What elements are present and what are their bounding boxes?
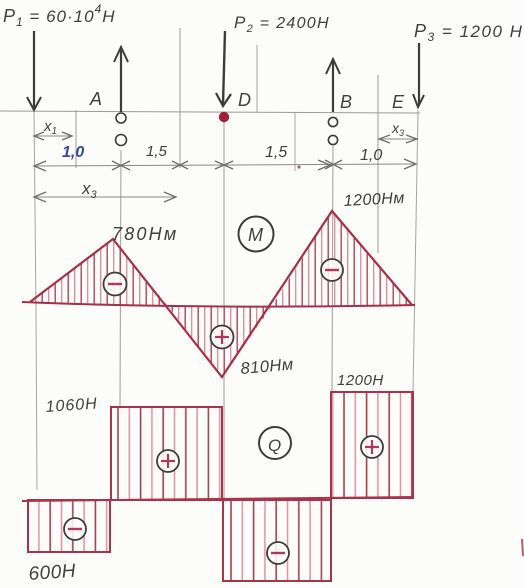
svg-text:D: D: [238, 90, 251, 110]
Q sign minus left: [64, 518, 86, 540]
Q sign plus right: [361, 436, 383, 458]
Q diagram negative rect 600N: [28, 500, 110, 552]
support A rollers: [116, 113, 127, 146]
construction line x=295: [294, 113, 296, 171]
svg-text:1060Н: 1060Н: [45, 395, 98, 416]
construction line x=121 (A): [120, 150, 121, 406]
svg-text:1,0: 1,0: [62, 144, 84, 161]
M diagram hatched area left triangle: [30, 239, 168, 306]
svg-text:Q: Q: [268, 436, 281, 455]
Q diagram negative rect middle: [223, 500, 331, 581]
dimension x3 right: [379, 120, 417, 143]
beam axis line: [0, 111, 420, 113]
red mark at right edge: [522, 539, 523, 556]
force P3 arrow: [413, 43, 424, 107]
Q diagram positive rect 1200N: [331, 392, 413, 498]
M sign plus middle: [211, 326, 234, 349]
M sign minus left: [104, 273, 127, 296]
node D red dot: [219, 112, 229, 122]
svg-text:1200Нм: 1200Нм: [343, 190, 405, 210]
svg-text:A: A: [89, 89, 102, 109]
construction line x=257: [256, 45, 258, 113]
Q sign plus left: [157, 450, 179, 472]
construction line x=378: [377, 75, 379, 253]
svg-text:1,0: 1,0: [360, 147, 382, 164]
Q diagram baseline: [22, 497, 413, 501]
construction line x=418 (E): [413, 110, 418, 392]
svg-text:B: B: [340, 92, 352, 112]
stray red speck: [297, 165, 300, 168]
svg-text:1,5: 1,5: [146, 143, 168, 160]
support B rollers: [328, 117, 337, 144]
label P1 value: [3, 2, 116, 29]
reaction arrow at B: [326, 59, 340, 112]
M diagram baseline: [22, 302, 415, 307]
label P3 value: [414, 21, 523, 44]
force P1 arrow: [27, 31, 41, 110]
M sign minus right: [321, 259, 343, 281]
label P2 value: [234, 13, 330, 35]
dimension x1: [34, 118, 72, 140]
construction line x=180: [179, 28, 181, 168]
reaction arrow at A: [114, 47, 128, 112]
construction line x=36 left: [34, 110, 37, 490]
force P2 arrow: [216, 31, 231, 106]
M diagram hatched area right triangle: [272, 211, 412, 306]
Q sign minus middle: [267, 542, 289, 564]
M diagram name circle: [239, 217, 274, 252]
construction line x=333 (B): [332, 146, 333, 392]
M diagram hatched area middle V: [168, 306, 272, 377]
Q diagram name circle: [259, 427, 291, 459]
construction line x=224 (D): [223, 122, 225, 500]
construction line x=76: [75, 110, 77, 168]
dimension x3 left: [34, 179, 176, 202]
svg-text:М: М: [248, 225, 263, 245]
svg-text:600Н: 600Н: [28, 561, 77, 585]
svg-text:1,5: 1,5: [265, 144, 287, 161]
svg-text:E: E: [392, 92, 405, 112]
M diagram profile: [30, 211, 412, 377]
svg-text:1200Н: 1200Н: [337, 372, 384, 389]
svg-text:780Нм: 780Нм: [112, 224, 178, 244]
main dimension line: [34, 159, 416, 171]
Q diagram positive rect 1060N: [111, 407, 222, 500]
